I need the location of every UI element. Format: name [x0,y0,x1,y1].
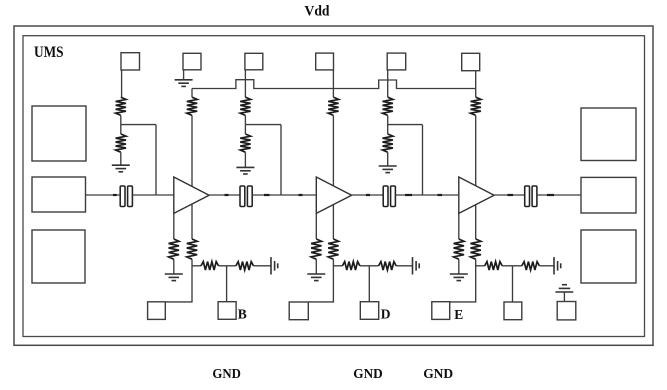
pad P4 (right edge square) [581,230,636,283]
svg-text:Vdd: Vdd [305,4,330,20]
resistor R2e (source right) [328,239,338,259]
wire tick marks on signal path [113,194,554,196]
capacitor C4 (output DC block) [525,186,537,207]
resistor R1s (source left) [169,239,179,259]
wire C2 to amp2 input [252,194,316,196]
wire drain stage 3 [475,89,477,240]
capacitor bypass-to-ground stage 2 [413,257,420,274]
chip outer boundary [14,26,653,345]
wire pad T6 to Vdd bus [475,71,477,89]
wire R3a to divider node [387,115,389,124]
pad RFout (output pad) [581,177,636,213]
op-amp U2 (amplifier stage 2) [316,177,351,213]
resistor R3b (gate bias lower) [383,134,393,152]
wire R1a to divider node [120,115,122,124]
capacitor C1 (input DC block) [120,186,132,207]
wire R3s to ground [458,259,460,274]
wire amp2 output to C3 [352,194,384,196]
resistor R2f (bias chain 1) [342,262,360,270]
resistor R3f (bias chain 1) [485,262,503,270]
pad bias stage 1 [218,302,236,320]
wire R2s to ground [315,259,317,274]
pad T6 (Vdd feed stage3) [462,53,480,70]
svg-text:GND: GND [353,367,383,382]
wire RFin to C1 [86,194,121,196]
resistor R3g (bias chain 2) [522,262,540,270]
wire C1 to amp1 input [132,194,173,196]
wire pad T2 to ground [183,70,185,80]
resistor R2s (source left) [311,239,321,259]
resistor R1g (bias chain 2) [236,262,254,270]
pad RFin (input pad) [32,177,86,212]
wire R2b leads [244,125,246,168]
wire divider node 2 to feedback drop [245,124,281,126]
resistor R1f (bias chain 1) [201,262,219,270]
wire R3e down and left to pad [450,259,476,302]
wire R1s to ground [173,259,175,274]
ground source stage 3 [450,274,468,281]
pad P3 (right edge square) [581,108,636,161]
pad spare (bottom right) [557,302,576,320]
resistor R2d (drain bias) [328,97,338,115]
pad bottom-left stage 1 [148,302,166,320]
wire R1f to tee node [219,265,236,267]
op-amp U1 (amplifier stage 1) [174,177,209,213]
pad T3 (stage2 bias) [245,53,263,70]
resistor R3e (source right) [471,239,481,259]
wire gate feed stage 2 [280,125,282,195]
pad bottom-left stage 3 [432,302,450,320]
svg-text:D: D [381,307,391,322]
ground source stage 1 [165,274,183,281]
wire amp3 output to C4 [494,194,525,196]
ground source stage 2 [307,274,325,281]
ground inverted (above spare pad) [555,285,573,292]
svg-text:GND: GND [212,367,241,382]
wire tee node 2 to pad [368,266,370,302]
wire R2g to bypass cap [396,265,412,267]
wire drain stage 1 [191,89,193,240]
svg-text:GND: GND [423,367,453,382]
capacitor bypass-to-ground stage 1 [271,257,278,274]
wire pad T3 to R2a (crosses bus jog) [244,70,246,97]
wire node to R3f [476,265,485,267]
svg-text:B: B [238,306,247,321]
ground under pad T2 [175,80,193,87]
wire tee node 3 to pad [512,266,514,302]
resistor R3d (drain bias) [471,97,481,115]
wire node to R2f [333,265,342,267]
pad P2 (left edge square) [32,230,85,283]
chip inner boundary [23,36,645,337]
wire R1b leads [120,125,122,166]
resistor R1d (drain bias) [187,97,197,115]
wire amp1 output to C2 [209,194,240,196]
wire R3b leads [387,125,389,166]
wire R3g to bypass cap [539,265,554,267]
wire C4 to RFout [537,194,581,196]
pad T4 (Vdd feed stage2) [316,53,334,70]
wire R2e down and left to pad [308,259,333,302]
svg-text:E: E [454,307,463,322]
wire R2a to divider node [244,115,246,124]
pad bias stage 3 [504,302,522,320]
wire node to R1f [192,265,201,267]
pad bias stage 2 [360,302,378,320]
svg-text:UMS: UMS [34,44,64,61]
wire pad T1 to R1a [121,70,123,97]
ground of divider 1 [112,165,130,172]
wire divider node 1 to feedback drop [121,124,156,126]
pad T1 (stage1 bias) [121,53,140,70]
pad bottom-left stage 2 [289,302,308,320]
capacitor C3 (interstage DC block) [383,186,395,207]
capacitor C2 (interstage DC block) [240,186,252,207]
wire drain stage 2 [332,89,334,240]
resistor R1e (source right) [187,239,197,259]
wire R3f to tee node [502,265,522,267]
wire pad T4 to Vdd bus [332,70,334,89]
wire R1g to bypass cap [254,265,272,267]
resistor R2a (gate bias upper) [240,97,250,115]
wire triangle 3 lower-left to R3s [458,213,460,239]
pad T2 (ground pad) [183,53,201,70]
resistor R1b (gate bias lower) [116,134,126,152]
wire R2f to tee node [360,265,379,267]
wire C3 to amp3 input [395,194,458,196]
resistor R3a (gate bias upper) [383,97,393,115]
wire tee node 1 to pad [226,266,228,302]
resistor R2b (gate bias lower) [240,134,250,152]
wire triangle 1 lower-left to R1s [173,213,175,239]
ground of divider 3 [379,166,397,173]
capacitor bypass-to-ground stage 3 [554,257,561,274]
wire divider node 3 to feedback drop [388,124,423,126]
op-amp U3 (amplifier stage 3) [459,177,494,213]
wire inverted ground to spare pad [563,292,565,302]
wire gate feed stage 3 [422,125,424,195]
wire Vdd bus (y=88.5 with two jog-overs) [192,80,476,89]
pad P1 (left edge square) [32,106,86,161]
wire gate feed stage 1 [155,125,157,195]
wire R1e down and left to pad [165,259,192,302]
resistor R3s (source left) [454,239,464,259]
wire triangle 2 lower-left to R2s [315,213,317,239]
wire pad T5 to R3a (crosses bus jog) [387,70,389,97]
resistor R1a (gate bias upper) [116,97,126,115]
pad T5 (stage3 bias) [387,53,406,70]
resistor R2g (bias chain 2) [379,262,397,270]
ground of divider 2 [236,167,254,174]
